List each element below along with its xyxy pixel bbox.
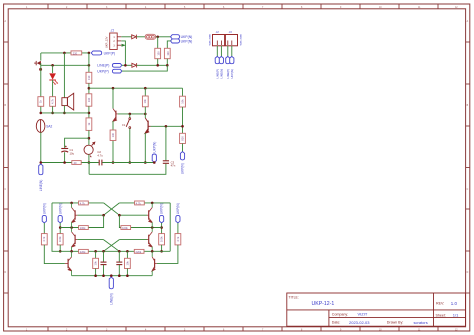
capacitor C2 <box>97 150 103 165</box>
speaker LS1 <box>62 93 74 110</box>
svg-text:VIZIT: VIZIT <box>358 312 368 317</box>
svg-text:130: 130 <box>87 75 91 80</box>
svg-text:UKP(N): UKP(N) <box>58 203 62 214</box>
junction dot LED column <box>51 64 54 67</box>
svg-text:LINE(N): LINE(N) <box>220 69 224 79</box>
wire R10 to junction <box>182 107 184 133</box>
wire LINE row y65 <box>41 64 89 66</box>
border ticks top <box>48 4 438 9</box>
wire RB2 to W5 <box>161 245 163 251</box>
svg-text:UKP(N): UKP(N) <box>176 203 180 214</box>
svg-text:220k: 220k <box>80 250 86 254</box>
wire W4 right Q4R base <box>119 239 147 241</box>
junction dot LED column bottom <box>51 112 54 115</box>
wire right column drop <box>182 88 184 96</box>
svg-text:Date:: Date: <box>332 321 341 325</box>
wire W5 row <box>60 250 170 252</box>
junction dot mid bottom flag <box>153 161 156 164</box>
diode D3 <box>34 61 41 65</box>
wire Q2 emitter <box>144 133 146 163</box>
junction dot Q3L emitter on W3 <box>70 226 73 229</box>
wire X1 right drop <box>119 215 161 227</box>
svg-text:10u: 10u <box>70 152 75 156</box>
net flag UKP(N) row1 <box>171 35 193 40</box>
wire x89 column top <box>88 53 90 72</box>
junction dot rail CL2 <box>118 274 121 277</box>
wire LED to R7 <box>52 80 54 97</box>
svg-text:UKP(P): UKP(P) <box>97 70 109 74</box>
wire flag row2 to R2 column <box>167 41 170 48</box>
wire J3 pin2 down <box>231 46 233 57</box>
resistor R6 <box>86 118 92 130</box>
wire R4 to rail <box>88 83 90 94</box>
wire cross X2 diag A <box>104 240 120 252</box>
junction dot X2 left bottom <box>102 250 105 253</box>
junction dot R1 bottom <box>156 64 159 67</box>
diode D1 <box>132 35 137 39</box>
resistor RB <box>57 234 63 245</box>
net flag UKP(N) under J3 pin2 <box>230 56 234 78</box>
capacitor C1 <box>61 146 74 156</box>
net flag UKP(N) mid bottom <box>152 142 156 163</box>
svg-text:LINE(N): LINE(N) <box>109 293 113 305</box>
transistor Q5L <box>65 251 72 275</box>
junction dot C3 top <box>165 125 168 128</box>
wire speaker column <box>63 53 65 98</box>
svg-text:J1: J1 <box>111 29 115 33</box>
junction dot net UKP <box>156 36 159 39</box>
resistor R7 <box>50 97 56 107</box>
svg-text:WAN_MAIN: WAN_MAIN <box>240 33 243 45</box>
border ticks right <box>466 42 470 293</box>
junction dot B2 on W3 <box>160 226 163 229</box>
wire R2 to LINE wire <box>166 59 168 66</box>
svg-text:4.7k: 4.7k <box>42 236 46 242</box>
wire L1 to flag UKP(N) row1 <box>156 36 171 38</box>
svg-text:4.7u: 4.7u <box>97 154 103 158</box>
svg-text:UKP-12-1: UKP-12-1 <box>312 301 335 307</box>
net flag LINE(P) under J3 pin1 <box>226 56 230 78</box>
svg-text:100k: 100k <box>58 236 62 242</box>
wire J3 pin1 down <box>227 46 229 57</box>
wire LINE(P) to D2 <box>122 64 132 66</box>
wire flag B2 down <box>161 223 163 234</box>
resistor R2 <box>164 48 170 58</box>
net flag UKP(N) divider <box>180 152 184 175</box>
svg-text:1/1: 1/1 <box>453 313 459 318</box>
wire C1 branch <box>65 138 89 148</box>
transistor Q1 <box>113 109 118 122</box>
net flag LINE(N) under J2 pin2 <box>219 56 223 78</box>
svg-text:LINE(P): LINE(P) <box>97 64 109 68</box>
title block frame <box>287 293 466 326</box>
resistor R12 <box>38 97 44 107</box>
junction dot R2 bottom <box>166 64 169 67</box>
wire top rail y88 <box>89 87 183 89</box>
junction dot x89 rail y88 <box>88 87 91 90</box>
connector J3 <box>225 30 242 46</box>
svg-text:1.0: 1.0 <box>451 301 458 306</box>
transistor Q3L <box>72 203 78 228</box>
wire flag A to RA <box>43 223 45 234</box>
junction dot Q3R emitter on W3 <box>151 226 154 229</box>
resistor R1 <box>155 48 161 58</box>
resistor R100k L <box>79 226 89 230</box>
resistor RA <box>41 234 47 245</box>
wire W1 left <box>52 202 104 204</box>
svg-text:TITLE:: TITLE: <box>289 296 299 300</box>
svg-text:UKP(N): UKP(N) <box>160 203 164 214</box>
junction dot Q2 collector <box>144 113 147 116</box>
wire RA to Q5L base <box>44 245 65 264</box>
svg-text:130: 130 <box>87 97 91 102</box>
svg-text:Company:: Company: <box>332 313 348 317</box>
capacitor C3 <box>163 160 176 167</box>
wire R5 to wire y113 <box>88 106 90 118</box>
junction dot rail RL2 <box>126 274 129 277</box>
net flag UKP(P) row2 <box>97 69 122 73</box>
wire X1 left drop <box>60 215 103 227</box>
resistor R8 <box>72 161 81 165</box>
junction dot Q4L emitter on W5 <box>70 250 73 253</box>
wire cross X1 diag B <box>104 203 120 215</box>
junction dot Q3R collector <box>151 202 154 205</box>
wire W5 left riser x52 <box>52 203 60 251</box>
net flag UKP(N) column B2 <box>160 203 164 223</box>
resistor R220k L <box>79 249 89 253</box>
resistor R9 <box>142 96 148 107</box>
diode D2 <box>132 63 137 67</box>
junction dot pin2 column <box>124 64 127 67</box>
wire bottom row y162 right <box>102 162 154 164</box>
svg-text:820: 820 <box>180 136 184 141</box>
resistor RA2 <box>175 234 181 245</box>
wire mic to bottom wire <box>88 154 90 162</box>
junction dot Q1 collector <box>112 87 115 90</box>
wire UKP(P) row2 to R2 column <box>122 65 167 71</box>
junction dot SA1 top <box>129 113 132 116</box>
junction dot Q1 emitter bottom <box>112 161 115 164</box>
LED D4 <box>49 73 58 84</box>
wire R7 to wire y113 <box>52 106 54 113</box>
svg-text:2023-02-03: 2023-02-03 <box>349 320 370 325</box>
svg-text:Drawn By:: Drawn By: <box>387 321 404 325</box>
wire RB to W5 <box>59 245 61 251</box>
wire J1 pin1 to D1 <box>121 36 131 38</box>
junction dot C1 branch <box>88 137 91 140</box>
svg-text:130: 130 <box>156 51 160 56</box>
lower resistor RL1 <box>93 251 99 275</box>
junction dot x89 y113 <box>88 112 91 115</box>
resistor R100k R <box>121 226 131 230</box>
wire UKP(P) top row <box>41 52 89 54</box>
wire Q1 emitter <box>112 121 114 163</box>
wire SA2 to bottom wire <box>40 132 42 162</box>
junction dot lower RC4 top <box>126 250 129 253</box>
svg-text:WAN_MAIN: WAN_MAIN <box>209 33 212 45</box>
svg-text:10k: 10k <box>125 261 129 266</box>
border ticks bottom <box>48 327 438 331</box>
junction dot Q3L collector <box>70 202 73 205</box>
svg-text:UKP(N): UKP(N) <box>230 69 234 78</box>
lower capacitor CL2 <box>116 251 122 275</box>
junction dot speaker column top <box>63 52 66 55</box>
svg-text:10k: 10k <box>143 99 147 104</box>
net flag UKP(N) column A <box>42 203 46 223</box>
svg-text:47n: 47n <box>171 164 176 168</box>
junction dot SA1 bottom <box>129 161 132 164</box>
wire cross X2 diag B <box>104 240 120 252</box>
wire R11 to flag <box>182 144 184 152</box>
resistor R3 <box>71 51 82 55</box>
net flag UKP(P) top <box>91 51 115 55</box>
wire Q1 collector <box>112 88 114 108</box>
wire right drop x170 <box>169 203 171 251</box>
svg-text:SA2: SA2 <box>46 124 52 128</box>
wire flag B down <box>59 223 61 234</box>
wire R9 to Q2 <box>144 107 146 118</box>
junction blob below D3 <box>39 68 42 71</box>
junction dot Q2 emitter bottom <box>144 161 147 164</box>
svg-text:UKP(P): UKP(P) <box>104 51 116 55</box>
wire D1 to L1 <box>136 36 145 38</box>
wire C3 bottom to return wire <box>89 164 166 175</box>
resistor R5 <box>86 94 92 106</box>
J1 pin3 no-connect flag <box>122 44 126 47</box>
junction dot rail flag <box>110 274 113 277</box>
junction dot rail CL1 <box>102 274 105 277</box>
junction dot bottom left flag <box>40 161 43 164</box>
net flag UKP(N) row2 <box>171 39 193 43</box>
svg-text:4.7k: 4.7k <box>51 98 55 104</box>
resistor R13 <box>110 130 116 141</box>
wire speaker to wire y113 <box>63 106 65 113</box>
resistor RB2 <box>159 234 165 245</box>
svg-text:LINE(P): LINE(P) <box>215 69 219 79</box>
resistor R4 <box>86 72 92 83</box>
junction dot B2 on W5 <box>160 250 163 253</box>
junction dot X2 right bottom <box>118 250 121 253</box>
fuse SA2 <box>36 120 52 133</box>
net flag LINE(P) <box>97 64 122 68</box>
net flag LINE(P) under J2 pin1 <box>215 56 219 78</box>
svg-text:100k: 100k <box>122 226 128 230</box>
connector J2 <box>209 30 225 46</box>
lower resistor RL2 <box>125 251 131 275</box>
svg-text:100k: 100k <box>80 226 86 230</box>
border ticks left <box>4 42 9 293</box>
wire C1 to bottom wire <box>64 152 66 162</box>
wire W2 left Q3L base <box>77 214 103 216</box>
wire J2 pin2 down <box>220 46 222 57</box>
net flag UKP(N) column A2 <box>176 203 180 223</box>
junction dot X1 left <box>102 214 105 217</box>
wire J2 pin1 down <box>216 46 218 57</box>
svg-text:4.7k: 4.7k <box>80 201 86 205</box>
junction dot x89 bottom <box>88 161 91 164</box>
wire dot to R1 <box>157 37 159 49</box>
resistor R11 <box>180 133 186 143</box>
transistor Q2 <box>145 118 150 133</box>
svg-text:4.7k: 4.7k <box>176 236 180 242</box>
junction dot rail RL1 <box>94 274 97 277</box>
wire y113 row <box>41 112 89 114</box>
lower capacitor CL1 <box>101 251 107 275</box>
wire R6 to mic <box>88 130 90 145</box>
wire bottom row y162 left <box>41 162 99 164</box>
resistor R220k R <box>134 249 144 253</box>
svg-text:UKP(N): UKP(N) <box>42 203 46 214</box>
resistor R10 <box>180 96 186 107</box>
wire left column down from UKP(P) <box>40 53 42 61</box>
svg-text:Sheet:: Sheet: <box>436 313 446 317</box>
wire W1 right <box>119 202 170 204</box>
wire return drop from x89 <box>88 163 90 175</box>
wire Q1 base row y114 <box>118 113 146 115</box>
svg-text:LINE(P): LINE(P) <box>226 69 230 79</box>
net flag UKP(N) column B <box>58 203 62 223</box>
wire RA2 to Q5R base <box>157 245 178 264</box>
transistor Q4R <box>147 228 152 252</box>
resistor R4k7 L <box>79 201 89 205</box>
svg-text:J3: J3 <box>229 30 232 34</box>
wire W2 right Q3R base <box>119 214 147 216</box>
svg-text:130: 130 <box>166 51 170 56</box>
wire R9 top lead <box>144 88 146 96</box>
junction dot lower RC1 top <box>94 250 97 253</box>
junction dot X1 right <box>118 214 121 217</box>
svg-text:UKP(N): UKP(N) <box>181 39 193 43</box>
wire R1 to LINE wire <box>157 59 159 66</box>
wire Q2 base row y126 <box>151 125 183 127</box>
resistor R4k7 R <box>135 201 145 205</box>
junction dot speaker bottom <box>63 112 66 115</box>
net flag LINE(N) below SA2 <box>39 164 43 191</box>
svg-text:UKP_12V: UKP_12V <box>105 36 109 48</box>
transistor Q5R <box>152 251 157 275</box>
transistor Q3R <box>147 203 152 228</box>
svg-text:220k: 220k <box>136 250 142 254</box>
wire W4 left Q4L base <box>77 239 103 241</box>
wire cross X1 diag A <box>104 203 120 215</box>
wire J1 pin2 down <box>121 41 125 65</box>
junction dot C1 bottom <box>63 161 66 164</box>
junction dot R9 top <box>144 87 147 90</box>
wire bottom rail <box>72 275 153 277</box>
svg-text:130: 130 <box>111 132 115 137</box>
junction dot Q4R emitter on W5 <box>151 250 154 253</box>
svg-text:100k: 100k <box>160 236 164 242</box>
junction dot x89 LINE row <box>88 64 91 67</box>
svg-text:J2: J2 <box>216 30 219 34</box>
inductor L1 <box>145 34 156 39</box>
junction dot SA2 top <box>40 112 43 115</box>
svg-text:10k: 10k <box>93 261 97 266</box>
svg-text:UKP(N): UKP(N) <box>181 163 185 174</box>
svg-text:REV:: REV: <box>436 301 444 305</box>
junction dot divider mid <box>181 125 184 128</box>
wire C3 upper lead <box>165 126 167 160</box>
svg-text:4.7k: 4.7k <box>136 201 142 205</box>
net flag LINE(N) bottom <box>109 277 113 305</box>
svg-text:LINE(N): LINE(N) <box>39 180 43 192</box>
wire left column to bottom <box>40 63 42 113</box>
junction dot B on W3 <box>59 226 62 229</box>
connector J1 <box>105 29 122 50</box>
transistor Q4L <box>72 228 78 252</box>
wire D2 to resistor columns <box>137 64 168 66</box>
switch SA1 <box>122 114 130 163</box>
svg-text:scrators: scrators <box>414 320 428 325</box>
svg-text:10k: 10k <box>180 99 184 104</box>
wire flag A2 to RA2 <box>177 223 179 234</box>
wire LED column <box>52 65 54 73</box>
microphone BM1 <box>84 142 95 157</box>
svg-text:220: 220 <box>73 51 78 55</box>
junction dot B on W5 <box>59 250 62 253</box>
svg-text:UKP(N): UKP(N) <box>152 142 156 153</box>
junction dot UKP(P) right <box>88 52 91 55</box>
